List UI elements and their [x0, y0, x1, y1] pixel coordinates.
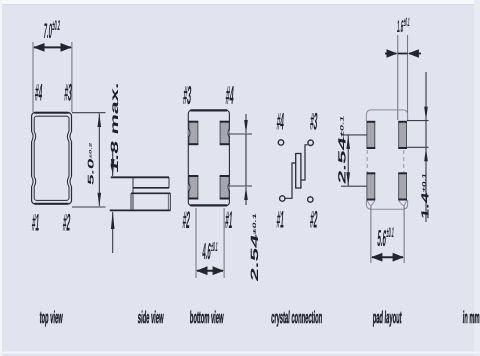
dimension 4.6 line with arrows	[197, 270, 223, 272]
pad layout package outline top	[366, 110, 407, 121]
top white border strip	[0, 0, 480, 4]
terminal circle #4	[278, 140, 283, 145]
wire from #3 to crystal right plate	[301, 145, 307, 180]
dimension 2.54 line upper outside arrow (bottom view)	[245, 114, 247, 133]
pad #2 (bottom view bottom-left)	[189, 176, 199, 200]
dimension 5.0 line with arrows	[98, 114, 100, 207]
pad #4 (bottom view top-right)	[220, 121, 230, 145]
svg-text:side view: side view	[138, 308, 164, 327]
dimension 2.54 extension line upper (bottom view)	[228, 133, 252, 135]
side view lid bottom line	[133, 187, 169, 189]
dimension 7.0 extension line left	[32, 42, 34, 112]
dimension 5.6 line with arrows	[372, 256, 403, 258]
castellation notch right upper	[67, 132, 73, 142]
pad top-left (pad layout)	[367, 121, 376, 149]
pin label #3 (schematic)	[309, 108, 318, 135]
wire from #1 to crystal left plate	[285, 163, 295, 198]
svg-text:top view: top view	[39, 308, 63, 327]
crystal element rectangle	[296, 154, 301, 189]
dimension 2.54 extension line lower (pad layout)	[341, 185, 367, 187]
dimension 2.54±0.1 rotated text (pad layout)	[336, 114, 348, 185]
caption bottom view	[190, 308, 224, 327]
svg-text:pad layout: pad layout	[372, 308, 402, 327]
dimension 1.4 upper outside arrow	[425, 72, 427, 120]
dimension 2.54 line with arrows (pad layout)	[347, 136, 349, 186]
dimension 5.0±0.2 rotated text	[87, 141, 96, 186]
dimension 1.6 line middle segment	[398, 53, 408, 55]
side view base top line	[131, 192, 171, 194]
dimension 1.8 line upper segment with down arrow	[112, 150, 114, 176]
dimension 5.0 extension line top	[72, 112, 106, 114]
dimension 1.6 extension line left	[397, 35, 399, 120]
side view bottom extension line	[110, 209, 171, 211]
dimension 7.0 line with arrows	[34, 46, 71, 48]
pad layout package outline bottom	[366, 200, 407, 209]
dimension 1.6 left outside arrow	[385, 53, 397, 55]
side view base inner right edge	[167, 193, 169, 210]
pad bottom-left (pad layout)	[367, 173, 376, 201]
dimension 2.54 line middle segment (bottom view)	[245, 134, 247, 186]
pin label #1 (schematic)	[276, 206, 285, 233]
dimension 4.6 extension line right	[223, 208, 225, 278]
pad taper lines below bottom-right pad	[399, 201, 407, 207]
terminal circle #1	[280, 196, 285, 201]
bottom view body outline	[188, 110, 229, 206]
dimension 2.54 line lower outside arrow (bottom view)	[245, 187, 247, 205]
top view body outer outline	[32, 113, 72, 205]
dimension 5.6 extension line right	[403, 205, 405, 263]
dimension 1.4 extension line lower	[407, 146, 429, 148]
dimension 5.6 extension line left	[370, 205, 372, 263]
dimension 2.54 extension line upper (pad layout)	[341, 134, 367, 136]
top hairline under strip	[0, 4, 480, 5]
pad top-right (pad layout)	[398, 121, 407, 149]
pin label #3 (bottom view)	[182, 82, 192, 111]
svg-text:crystal connection: crystal connection	[271, 308, 323, 327]
pin label #3 (top view)	[64, 79, 73, 106]
dimension 1.6 extension line right	[407, 35, 409, 120]
caption side view	[138, 308, 164, 327]
dimension 1.6 right outside arrow	[409, 53, 421, 55]
pin label #1 (top view)	[31, 209, 40, 236]
pin label #4 (bottom view)	[225, 82, 235, 111]
svg-text:1.8 max.: 1.8 max.	[109, 81, 121, 174]
right light border strip	[474, 0, 480, 356]
pad bottom-right (pad layout)	[398, 173, 407, 201]
pad layout package outline right dashed segment	[403, 150, 405, 173]
castellation notch left upper	[30, 132, 36, 142]
side view base right edge	[169, 193, 171, 210]
caption pad layout	[372, 308, 402, 327]
dimension 5.6±0.1 text	[377, 226, 395, 252]
pin label #4 (top view)	[34, 79, 43, 106]
svg-text:bottom view: bottom view	[190, 308, 224, 327]
side view body left edge	[132, 177, 134, 210]
dimension 1.4 line middle segment	[425, 121, 427, 148]
side view base left edge	[130, 193, 132, 210]
pad layout package outline left dashed segment	[366, 150, 368, 173]
dimension 1.6±0.1 text	[397, 15, 411, 36]
pad #1 (bottom view bottom-right)	[220, 176, 230, 200]
bottom view body top edge thick	[191, 109, 228, 111]
pad #3 (bottom view top-left)	[189, 121, 199, 145]
dimension 5.0 extension line bottom	[72, 206, 106, 208]
dimension 4.6 extension line left	[195, 208, 197, 278]
dimension 1.4±0.1 rotated text	[420, 172, 432, 220]
pin label #4 (schematic)	[276, 108, 285, 135]
side view top extension line	[111, 176, 169, 178]
terminal circle #2	[308, 197, 313, 202]
bottom view body bottom edge thick	[191, 204, 228, 206]
pin label #2 (bottom view)	[182, 206, 191, 233]
dimension 1.8 max. rotated text	[109, 81, 121, 174]
dimension 4.6±0.1 text	[202, 239, 219, 265]
left white border strip	[0, 0, 2, 356]
dimension 1.4 lower outside arrow	[425, 148, 427, 222]
svg-text:in mm: in mm	[462, 308, 480, 327]
dimension 2.54 extension line lower (bottom view)	[228, 185, 252, 187]
bottom light band	[0, 352, 480, 354]
castellation notch right lower	[67, 177, 73, 187]
dimension 1.8 line lower segment with up arrow	[112, 212, 114, 253]
dimension 1.4 extension line upper	[407, 120, 429, 122]
caption crystal connection	[271, 308, 323, 327]
pad taper lines below bottom-left pad	[367, 201, 375, 207]
castellation notch left lower	[30, 177, 36, 187]
caption top view	[39, 308, 63, 327]
dimension 7.0 extension line right	[71, 42, 73, 112]
side view lid right edge	[168, 177, 170, 188]
dimension 7.0±0.2 text	[43, 19, 61, 43]
pin label #2 (top view)	[62, 209, 71, 236]
pin label #2 (schematic)	[309, 206, 318, 233]
dimension 2.54±0.1 rotated text (bottom view)	[248, 211, 260, 282]
terminal circle #3	[308, 140, 313, 145]
pin label #1 (bottom view)	[224, 206, 233, 233]
caption in mm	[462, 308, 480, 327]
top view body inner lid outline	[34, 116, 69, 200]
